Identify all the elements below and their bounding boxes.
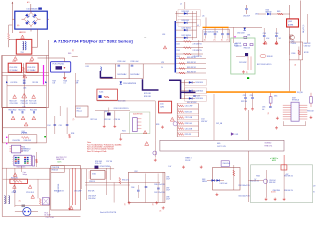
svg-text:220uF: 220uF: [166, 198, 170, 200]
svg-text:D203 ES2J: D203 ES2J: [182, 11, 190, 13]
svg-text:IC907: IC907: [292, 97, 296, 99]
svg-text:C941 1000uF 10V: C941 1000uF 10V: [238, 185, 249, 187]
svg-text:C925: C925: [262, 107, 266, 109]
svg-text:R230 10R: R230 10R: [144, 96, 152, 98]
svg-text:SHEET 2: SHEET 2: [185, 157, 191, 159]
svg-text:+B5: +B5: [202, 16, 205, 18]
svg-text:PSU-32: PSU-32: [185, 160, 190, 162]
svg-text:470P 1KV: 470P 1KV: [201, 121, 207, 123]
svg-text:3V3_SB: 3V3_SB: [216, 123, 222, 125]
svg-text:ISL9R460: ISL9R460: [265, 143, 272, 145]
svg-text:R128: R128: [64, 81, 68, 83]
svg-text:D905: D905: [274, 96, 278, 98]
svg-text:IC902: IC902: [92, 174, 96, 176]
svg-text:ZD906: ZD906: [291, 53, 295, 55]
svg-text:R226: R226: [156, 124, 160, 126]
svg-text:R935 10K: R935 10K: [52, 170, 58, 172]
svg-text:C943 104: C943 104: [269, 180, 275, 182]
svg-text:C924: C924: [250, 95, 253, 97]
svg-text:C940 470uF: C940 470uF: [223, 163, 231, 165]
svg-text:C931 22NF: C931 22NF: [74, 190, 81, 192]
svg-text:C937 470uF 16V: C937 470uF 16V: [154, 192, 165, 194]
svg-text:C905: C905: [263, 33, 267, 35]
svg-text:R910 10K: R910 10K: [244, 48, 250, 50]
svg-text:2.2R 1/4W 5%: 2.2R 1/4W 5%: [193, 44, 203, 46]
svg-text:R223 100K: R223 100K: [185, 111, 192, 113]
svg-text:C102 474K: C102 474K: [27, 67, 36, 69]
svg-text:R925 10K: R925 10K: [307, 111, 313, 113]
svg-text:D209 SS16: D209 SS16: [196, 98, 204, 100]
svg-text:D207 SB2100: D207 SB2100: [182, 35, 192, 37]
svg-text:R205 2R2 1W: R205 2R2 1W: [187, 57, 196, 59]
svg-text:PC901 PS2561: PC901 PS2561: [53, 63, 65, 65]
svg-text:D208 SS16: D208 SS16: [196, 91, 204, 93]
svg-text:CY102 1KV: CY102 1KV: [21, 103, 28, 105]
svg-text:D205 ES2J: D205 ES2J: [182, 20, 190, 22]
svg-text:SW_VCC_S: SW_VCC_S: [303, 25, 305, 33]
svg-text:D909: D909: [202, 179, 206, 181]
svg-text:Note:: Note:: [87, 141, 92, 144]
svg-text:L202: L202: [177, 44, 180, 46]
svg-text:C106 472M: C106 472M: [12, 140, 20, 142]
svg-text:Q202: Q202: [104, 111, 108, 113]
svg-text:R127: R127: [53, 81, 57, 83]
svg-text:R235 4.7K: R235 4.7K: [95, 163, 101, 165]
svg-text:R227 10K: R227 10K: [90, 119, 96, 121]
svg-text:C936 470uF 16V: C936 470uF 16V: [154, 184, 165, 186]
svg-text:L203: L203: [162, 34, 165, 36]
svg-text:470uF: 470uF: [166, 189, 170, 191]
svg-text:C921: C921: [247, 35, 251, 37]
svg-text:+12V: +12V: [285, 174, 288, 176]
svg-text:R944 10K 1%: R944 10K 1%: [250, 181, 260, 183]
svg-text:CY103 1KV: CY103 1KV: [29, 103, 36, 105]
svg-text:R917 3.30K 1/4W 5%: R917 3.30K 1/4W 5%: [257, 64, 272, 66]
svg-text:R118: R118: [71, 133, 75, 135]
svg-text:R224 100K: R224 100K: [185, 123, 192, 125]
svg-text:D202 BYV26C: D202 BYV26C: [187, 102, 198, 104]
svg-text:ZD201 MM3Z18VB: ZD201 MM3Z18VB: [123, 83, 136, 85]
svg-text:U901: U901: [234, 44, 238, 46]
svg-text:L901 6.8uH: L901 6.8uH: [237, 33, 244, 35]
svg-text:J902: J902: [134, 171, 137, 173]
svg-text:C906: C906: [275, 33, 279, 35]
svg-text:R936 100K 1W: R936 100K 1W: [54, 190, 64, 192]
svg-text:SB2100: SB2100: [202, 181, 207, 183]
svg-text:C211 2.2NF: C211 2.2NF: [185, 106, 193, 108]
svg-text:C213 222M: C213 222M: [185, 128, 193, 130]
svg-text:R941 4.7K: R941 4.7K: [122, 180, 129, 182]
svg-text:C2412K: C2412K: [291, 43, 296, 45]
svg-text:R937 47K: R937 47K: [88, 190, 94, 192]
svg-text:5V: 5V: [313, 192, 315, 194]
svg-text:R234 100K: R234 100K: [95, 161, 102, 163]
svg-text:+B: +B: [197, 25, 199, 27]
svg-text:C203 0.1uF: C203 0.1uF: [130, 61, 138, 63]
svg-text:C212 102M: C212 102M: [185, 117, 193, 119]
svg-text:R916 0R: R916 0R: [267, 56, 273, 58]
svg-text:R216 1.2M 1/2W 5%: R216 1.2M 1/2W 5%: [114, 108, 129, 110]
svg-text:D204 SS16: D204 SS16: [196, 82, 204, 84]
svg-text:Bom:C26 (TY)/C50 (2M)/(8) ! 94: Bom:C26 (TY)/C50 (2M)/(8) ! 9400048: [87, 149, 114, 151]
svg-text:0.1: 0.1: [64, 83, 66, 85]
svg-text:R232: R232: [122, 131, 126, 133]
svg-text:R229 10R: R229 10R: [144, 93, 152, 95]
svg-text:3V3_SB: 3V3_SB: [297, 92, 303, 94]
svg-text:IC101: IC101: [22, 147, 26, 149]
svg-text:C115: C115: [59, 125, 63, 127]
svg-text:L203: L203: [177, 50, 180, 52]
svg-text:C923: C923: [243, 95, 246, 97]
svg-text:D904: D904: [266, 10, 270, 12]
svg-text:C306 C308 C310 C311: C306 C308 C310 C311: [204, 32, 219, 34]
svg-text:C934: C934: [131, 187, 135, 189]
svg-text:BZ 18V: BZ 18V: [304, 52, 309, 54]
svg-text:C946: C946: [166, 177, 169, 179]
svg-text:R943: R943: [256, 176, 260, 178]
svg-text:C948: C948: [166, 196, 169, 198]
svg-text:ELECTROLYTIC: ELECTROLYTIC: [56, 157, 67, 159]
svg-text:5.0V TO 3.3V: 5.0V TO 3.3V: [217, 146, 226, 148]
svg-text:C117: C117: [76, 81, 80, 83]
svg-text:C218: C218: [197, 96, 201, 98]
svg-text:C904 470P: C904 470P: [243, 16, 250, 18]
svg-text:C102 474K: C102 474K: [9, 67, 18, 69]
svg-text:C216 104: C216 104: [114, 119, 120, 121]
svg-text:R908 47K: R908 47K: [304, 43, 311, 45]
svg-text:R905: R905: [277, 11, 281, 13]
svg-text:D241: D241: [235, 134, 239, 136]
svg-text:R106 220K: R106 220K: [24, 140, 31, 142]
svg-text:470uF: 470uF: [166, 179, 170, 181]
svg-text:C903: C903: [255, 14, 259, 16]
svg-text:C942 1000uF 10V: C942 1000uF 10V: [238, 195, 249, 197]
svg-text:4.7uF: 4.7uF: [266, 38, 270, 40]
svg-text:PC123: PC123: [234, 46, 238, 48]
svg-text:1uF: 1uF: [262, 109, 265, 111]
svg-text:105°C: 105°C: [58, 161, 62, 163]
svg-text:R107 1.2M: R107 1.2M: [29, 101, 37, 103]
svg-text:L902 3.3uH: L902 3.3uH: [220, 183, 227, 185]
svg-text:RT101 5D-9: RT101 5D-9: [26, 192, 34, 194]
svg-text:CY101 222M: CY101 222M: [10, 103, 19, 105]
svg-text:RT9193-33: RT9193-33: [292, 99, 299, 101]
svg-text:R922 10K: R922 10K: [241, 101, 247, 103]
svg-text:C210: C210: [160, 104, 164, 106]
svg-text:C932 470uF: C932 470uF: [88, 196, 96, 198]
svg-text:D101 GBU406: D101 GBU406: [27, 8, 38, 10]
svg-text:C933 470uF: C933 470uF: [88, 198, 96, 200]
svg-text:C214: C214: [201, 119, 205, 121]
svg-text:Bom:C26 (35/105/8K) CY0250WR5G: Bom:C26 (35/105/8K) CY0250WR5GE: [87, 147, 114, 149]
svg-text:(T) 5V1: (T) 5V1: [271, 191, 276, 193]
svg-text:IC202 HT7533: IC202 HT7533: [133, 114, 143, 116]
svg-text:R945 10K: R945 10K: [269, 182, 275, 184]
svg-text:L102 R110: L102 R110: [10, 82, 17, 84]
svg-text:R948 10K 1%: R948 10K 1%: [284, 190, 294, 192]
svg-text:R111 2M: R111 2M: [32, 82, 38, 84]
svg-text:2.2R 1/4W 5%: 2.2R 1/4W 5%: [193, 50, 203, 52]
svg-text:D206 SB2100: D206 SB2100: [182, 28, 192, 30]
svg-text:R105 1.2M: R105 1.2M: [10, 101, 18, 103]
svg-text:R225 47K: R225 47K: [185, 134, 191, 136]
svg-text:C217 104: C217 104: [106, 161, 112, 163]
svg-text:C913 470P: C913 470P: [239, 62, 247, 64]
svg-text:12V: 12V: [313, 186, 315, 188]
svg-text:C114: C114: [47, 125, 51, 127]
svg-text:10K: 10K: [53, 83, 56, 85]
svg-text:C202 0.1uF: C202 0.1uF: [117, 61, 125, 63]
svg-text:R231 10K: R231 10K: [104, 119, 110, 121]
svg-text:50V: 50V: [279, 38, 281, 40]
svg-text:R905: R905: [68, 53, 72, 55]
svg-text:L201: L201: [86, 66, 90, 68]
svg-text:R205 2R2 1W: R205 2R2 1W: [187, 71, 196, 73]
svg-text:5.0V: 5.0V: [168, 166, 171, 168]
svg-text:R106 1.2M: R106 1.2M: [21, 101, 29, 103]
svg-text:PC902 PS2561: PC902 PS2561: [100, 166, 111, 168]
svg-text:+B: +B: [180, 4, 182, 6]
svg-text:P101: P101: [45, 212, 49, 214]
svg-text:ICE3BR0665J: ICE3BR0665J: [22, 149, 31, 151]
svg-text:R205 2R2 1W: R205 2R2 1W: [187, 62, 196, 64]
svg-text:IC201: IC201: [99, 91, 103, 93]
svg-text:C908 102: C908 102: [304, 45, 311, 47]
svg-text:R205 2R2 1W: R205 2R2 1W: [187, 67, 196, 69]
svg-text:RL101: RL101: [77, 108, 81, 110]
svg-text:DK1a-L2: DK1a-L2: [77, 111, 83, 113]
svg-text:PWM CTRL: PWM CTRL: [265, 146, 273, 148]
svg-text:L105: L105: [23, 88, 27, 90]
svg-text:T101: T101: [21, 52, 25, 54]
svg-text:A 715G7734 PSU[For 32" 5302 Se: A 715G7734 PSU[For 32" 5302 Series]: [54, 39, 133, 43]
svg-text:C947: C947: [166, 187, 169, 189]
svg-text:Q903: Q903: [288, 21, 292, 23]
